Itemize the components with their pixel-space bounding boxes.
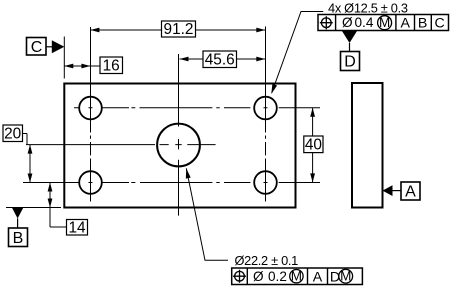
hole H4 bottom-right 12.5 (254, 171, 277, 194)
svg-text:B: B (13, 230, 24, 247)
svg-text:Ø: Ø (342, 15, 353, 30)
svg-text:Ø22.2 ± 0.1: Ø22.2 ± 0.1 (235, 253, 299, 268)
svg-text:A: A (400, 16, 410, 32)
dimension 45.6 right arrow (256, 57, 265, 62)
datum A box (401, 182, 420, 200)
svg-text:14: 14 (68, 219, 86, 236)
svg-text:B: B (418, 16, 427, 32)
svg-text:M: M (340, 269, 351, 284)
centerline vertical left column x=90.5 (90, 27, 92, 202)
dimension 91.2 label box (162, 21, 196, 37)
svg-text:0.2: 0.2 (268, 269, 287, 284)
svg-text:M: M (291, 269, 302, 284)
svg-text:4x Ø12.5 ± 0.3: 4x Ø12.5 ± 0.3 (328, 0, 408, 15)
centerline vertical center column x=178.5 (178, 54, 180, 216)
svg-text:91.2: 91.2 (164, 21, 194, 38)
svg-text:16: 16 (103, 57, 120, 74)
dimension 45.6 line (180, 58, 266, 60)
dimension 14 label box (67, 220, 88, 236)
svg-text:M: M (379, 15, 390, 30)
dimension 40 label box (304, 136, 323, 153)
extension line left edge top (for 16 dim and datum C) (63, 37, 65, 79)
FCF1 M circle (378, 16, 392, 30)
datum C connector (46, 46, 52, 48)
dimension 40 bottom arrow (310, 173, 315, 182)
FCF2 position symbol (233, 270, 246, 283)
datum D triangle (342, 31, 357, 43)
FCF1 outer frame (318, 15, 449, 31)
plate front view outline (64, 84, 295, 208)
dimension 14 line (50, 183, 67, 228)
datum D box (341, 52, 360, 71)
FCF2 M circle (290, 270, 303, 283)
dimension 20 leader elbow (23, 134, 28, 145)
dimension 20 label box (3, 125, 23, 142)
hole H2 top-right 12.5 (254, 97, 277, 120)
centerline horizontal center hole y=145 (26, 144, 216, 146)
dimension 20 top arrow (28, 145, 33, 154)
datum C triangle (52, 40, 65, 53)
side view outline (352, 83, 383, 208)
hole H1 top-left 12.5 (79, 97, 102, 120)
dimension 91.2 line (90, 29, 265, 31)
svg-text:D: D (344, 54, 356, 71)
datum B triangle (12, 208, 24, 219)
dimension 20 bottom arrow (28, 174, 33, 183)
svg-text:45.6: 45.6 (205, 51, 235, 68)
svg-text:A: A (405, 184, 416, 201)
svg-text:A: A (313, 269, 323, 285)
dimension 40 line (312, 108, 314, 183)
datum B box (9, 228, 28, 247)
dimension 20 line (29, 145, 31, 183)
hole H3 bottom-left 12.5 (79, 171, 102, 194)
dimension 16 right arrow (81, 64, 90, 69)
dimension 91.2 left arrow (90, 28, 99, 33)
svg-text:0.4: 0.4 (355, 15, 374, 30)
datum A connector (393, 190, 402, 192)
leader 4x holes arrowhead (271, 84, 277, 94)
dimension 91.2 right arrow (256, 28, 265, 33)
svg-text:20: 20 (4, 125, 21, 142)
datum B connector (17, 219, 19, 229)
centerline vertical right column x=265.5 (265, 27, 267, 202)
dimension 16 line (64, 65, 100, 67)
FCF2 outer frame (232, 268, 363, 285)
svg-text:C: C (434, 16, 444, 32)
dimension 45.6 left arrow (180, 57, 189, 62)
dimension 16 label box (100, 57, 123, 74)
leader 4x holes (272, 12, 324, 93)
FCF1 position symbol (320, 16, 333, 29)
extension line bottom edge left (for 14 dim and datum B) (6, 207, 61, 209)
FCF2 M circle 2 (339, 269, 353, 283)
svg-text:40: 40 (305, 137, 322, 154)
centerline horizontal bottom holes y=182.5 (23, 182, 320, 184)
svg-text:Ø: Ø (253, 269, 264, 284)
dimension 14 top arrow (48, 183, 53, 192)
datum D connector (349, 43, 351, 52)
dimension 16 left arrow (64, 64, 73, 69)
datum A triangle (383, 185, 393, 196)
dimension 45.6 label box (203, 51, 237, 68)
leader center hole (186, 168, 228, 260)
datum C box (27, 38, 47, 56)
hole H5 center 22.2 (157, 124, 200, 167)
leader center hole arrowhead (186, 168, 191, 178)
dimension 14 bottom arrow (48, 199, 53, 208)
svg-text:C: C (31, 39, 43, 56)
centerline horizontal top holes y=108 (74, 107, 320, 109)
dimension 40 top arrow (310, 108, 315, 117)
